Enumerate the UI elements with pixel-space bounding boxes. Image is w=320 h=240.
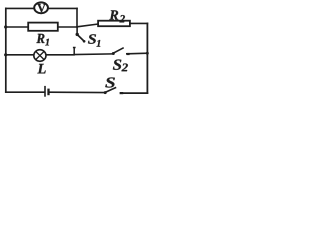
resistor R1 (box)	[28, 23, 58, 31]
junction right rail / S2 row	[146, 52, 149, 55]
switch S2 left contact dot	[112, 52, 115, 55]
voltmeter letter V	[37, 4, 45, 12]
resistor R2 (box)	[98, 21, 130, 27]
switch S2 blade	[114, 48, 124, 53]
wire left rail	[5, 8, 7, 92]
wire node B to R2 left lead	[77, 24, 98, 27]
wire R2 right lead	[131, 22, 147, 24]
battery long plate	[44, 86, 46, 97]
battery short thick plate	[47, 89, 49, 96]
switch S1 blade tip dot	[83, 40, 86, 43]
label R1	[36, 34, 49, 46]
wire switch S to right rail	[123, 92, 147, 94]
wire switch S2 to right rail	[127, 52, 148, 55]
wire battery to switch S	[50, 91, 105, 93]
switch S1 blade	[78, 35, 84, 41]
label S1	[88, 34, 100, 46]
label S2	[113, 60, 128, 72]
junction left rail / lamp row	[4, 53, 7, 56]
wire node A to switch S2	[74, 53, 112, 56]
wire R1 row	[6, 26, 77, 28]
junction left rail / R1 row	[4, 25, 7, 28]
label S	[105, 77, 115, 87]
switch S right contact dash	[120, 92, 124, 94]
voltmeter V (meter body)	[34, 2, 48, 13]
wire bottom row to battery	[6, 91, 45, 93]
switch S1 pivot dot	[76, 33, 79, 36]
wire top voltmeter row	[6, 7, 77, 9]
switch S2 right contact dash	[127, 53, 130, 55]
label L	[37, 64, 45, 73]
label R2	[109, 10, 124, 22]
switch S1 lower contact post	[73, 48, 76, 55]
wire voltmeter branch vertical to node B	[76, 8, 78, 27]
wire right rail	[146, 23, 148, 93]
lamp L (bulb body)	[34, 50, 46, 62]
switch S1 upper post	[76, 27, 78, 34]
switch S blade	[106, 87, 117, 92]
lamp L cross	[36, 52, 44, 60]
switch S left contact dot	[104, 91, 107, 94]
wire lamp row left	[6, 54, 74, 56]
